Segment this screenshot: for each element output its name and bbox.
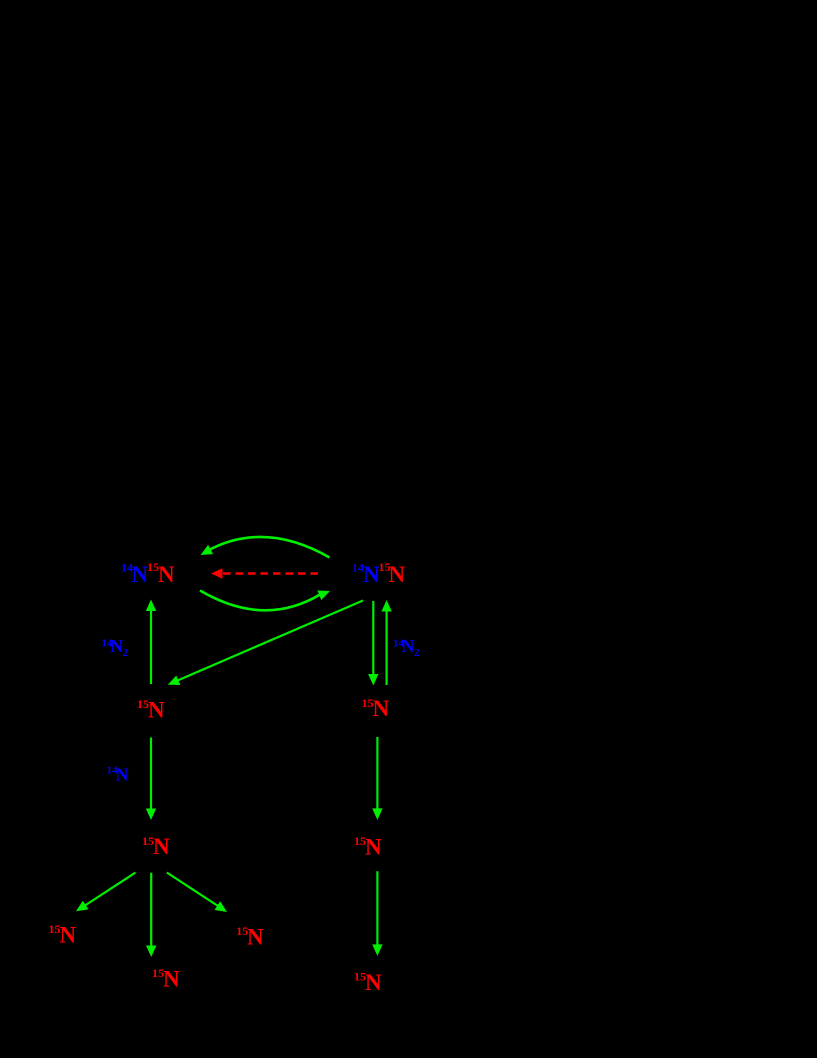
node 15N right level3 (354, 834, 382, 860)
svg-text:2: 2 (123, 647, 129, 659)
wire down-left arrow from left 15N (76, 873, 136, 912)
wire down-right arrow from left 15N (167, 873, 227, 913)
svg-text:N: N (402, 636, 415, 656)
label 14N2 right (blue) (393, 636, 420, 659)
svg-text:N: N (116, 765, 129, 785)
node 15N bottom-middle (152, 966, 180, 992)
wire top curved arrow right-to-left (201, 537, 330, 558)
node 15N left level2 (137, 697, 165, 723)
svg-text:N: N (132, 562, 149, 587)
node 14N15N top-left (121, 560, 175, 587)
wire right column down arrow (368, 601, 378, 686)
svg-text:N: N (365, 970, 382, 995)
svg-text:N: N (373, 696, 390, 721)
wire left column up arrow (14N2 release) (146, 600, 156, 685)
wire left down arrow level2-3 (146, 738, 156, 821)
svg-text:N: N (148, 698, 165, 723)
svg-text:N: N (60, 923, 77, 948)
node 14N15N top-right (352, 560, 406, 587)
wire right down arrow level2-3 (372, 737, 382, 820)
svg-text:N: N (247, 925, 264, 950)
node 15N bottom mid-right (236, 924, 264, 950)
svg-text:N: N (363, 562, 380, 587)
wire right down arrow level3-4 (372, 871, 382, 956)
node 15N left level3 (142, 834, 170, 859)
svg-text:N: N (163, 967, 180, 992)
svg-text:N: N (389, 562, 406, 587)
wire diagonal arrow from top-right node to left 15N (168, 601, 363, 686)
wire bottom curved arrow left-to-right (200, 591, 330, 611)
label 14N2 left (blue) (102, 636, 129, 659)
svg-text:N: N (153, 834, 170, 859)
node 15N bottom-left (49, 922, 77, 948)
svg-text:N: N (365, 835, 382, 860)
node 15N bottom right-column (354, 970, 382, 996)
label 14N (blue) (107, 765, 129, 785)
wire right column up arrow (381, 600, 391, 685)
node 15N right level2 (362, 696, 390, 721)
svg-text:N: N (110, 636, 123, 656)
wire red dashed arrow right-to-left (211, 568, 318, 578)
svg-text:N: N (158, 562, 175, 587)
svg-text:2: 2 (414, 647, 420, 659)
wire down arrow from left 15N (146, 873, 156, 957)
